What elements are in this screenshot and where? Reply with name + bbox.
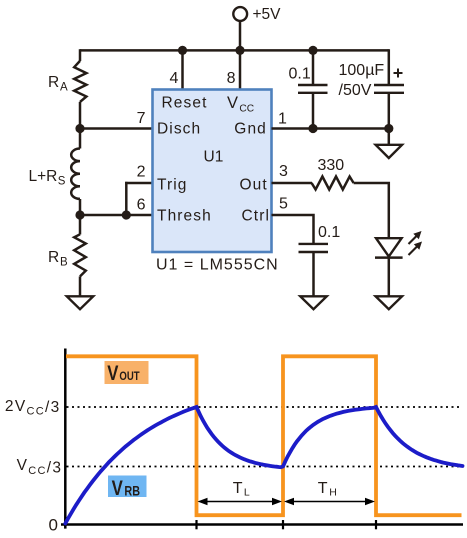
svg-text:+5V: +5V	[253, 6, 282, 23]
svg-text:2: 2	[137, 164, 146, 181]
chart y-axis	[64, 349, 67, 529]
LED D1	[375, 238, 403, 257]
svg-text:T: T	[233, 480, 243, 497]
wire Disch pin7	[80, 127, 153, 130]
ground under C3	[300, 296, 326, 309]
svg-text:RB: RB	[124, 483, 140, 498]
svg-text:8: 8	[227, 70, 236, 87]
svg-text:5: 5	[279, 196, 288, 213]
dotted level 2Vcc/3	[67, 406, 462, 408]
svg-text:U1 = LM555CN: U1 = LM555CN	[156, 257, 279, 274]
svg-text:L+R: L+R	[29, 168, 58, 185]
svg-text:0: 0	[49, 516, 58, 535]
wire C1 top lead	[312, 50, 315, 85]
wire Gnd pin1 rail	[272, 127, 389, 130]
wire +5V to top rail	[239, 21, 242, 51]
wire Trig pin2	[125, 182, 153, 185]
svg-text:R: R	[48, 249, 59, 266]
wire pin8 stub	[239, 50, 242, 91]
axis tick t3	[375, 520, 377, 529]
svg-text:V: V	[112, 477, 123, 500]
svg-text:0.1: 0.1	[289, 66, 311, 83]
junction C1/top rail	[308, 46, 317, 55]
waveform VRB (blue capacitor voltage)	[65, 407, 462, 524]
wire inductor bottom to Thresh node	[79, 199, 82, 235]
resistor RB	[74, 234, 86, 276]
svg-text:VCC/3: VCC/3	[17, 457, 63, 477]
junction RB/Thresh	[75, 210, 84, 219]
wire Thresh pin6	[80, 214, 153, 217]
axis tick t2	[282, 520, 284, 529]
svg-text:CC: CC	[239, 104, 254, 115]
svg-text:U1: U1	[204, 149, 224, 166]
junction pin4/top rail	[178, 46, 187, 55]
chart x-axis	[61, 523, 463, 526]
junction RA/Disch	[75, 124, 84, 133]
junction Trig/Thresh	[122, 210, 131, 219]
svg-text:T: T	[318, 480, 328, 497]
svg-text:6: 6	[137, 197, 146, 214]
svg-text:3: 3	[279, 163, 288, 180]
svg-text:Trig: Trig	[157, 177, 188, 194]
IC U1 555 timer body	[153, 90, 272, 253]
polarity plus C2	[394, 69, 403, 78]
svg-text:0.1: 0.1	[318, 224, 340, 241]
svg-text:V: V	[107, 362, 118, 385]
svg-text:B: B	[60, 257, 68, 269]
junction +5V/top rail	[235, 46, 244, 55]
svg-text:Disch: Disch	[157, 121, 201, 138]
wire C1 bottom lead	[312, 93, 315, 129]
dotted level Vcc/3	[67, 466, 462, 468]
wire C3 bottom lead	[312, 252, 315, 296]
ground under C2	[376, 145, 402, 158]
junction C1/Gnd rail	[308, 124, 317, 133]
label VRB box	[108, 476, 147, 501]
wire R330 to LED	[354, 183, 389, 239]
svg-text:Gnd: Gnd	[234, 121, 267, 138]
dimension arrow TH	[284, 480, 375, 505]
svg-text:L: L	[244, 487, 250, 499]
svg-text:7: 7	[137, 110, 146, 127]
wire Trig jog vertical	[125, 182, 128, 215]
ground under RB	[67, 296, 93, 309]
wire Out pin3 to R330	[272, 182, 313, 185]
svg-text:Out: Out	[240, 177, 268, 194]
svg-text:V: V	[227, 94, 238, 112]
capacitor C1 0.1	[298, 85, 328, 93]
wire RA bottom to Disch node	[79, 102, 82, 149]
svg-text:Ctrl: Ctrl	[242, 207, 271, 224]
svg-text:S: S	[58, 176, 66, 188]
resistor R330	[312, 177, 354, 190]
wire LED cathode lead	[388, 258, 391, 296]
wire RB bottom lead	[79, 276, 82, 297]
ground under LED	[376, 296, 402, 309]
svg-text:330: 330	[318, 157, 345, 174]
svg-text:100µF: 100µF	[339, 62, 385, 79]
wire pin4 stub	[181, 50, 184, 91]
axis tick t1	[195, 520, 197, 529]
svg-text:R: R	[48, 74, 59, 91]
svg-text:2VCC/3: 2VCC/3	[5, 398, 61, 417]
svg-text:A: A	[60, 82, 68, 94]
node +5V supply terminal	[233, 7, 247, 21]
capacitor C2 100uF	[374, 85, 404, 93]
svg-text:OUT: OUT	[119, 370, 140, 383]
svg-text:Thresh: Thresh	[157, 207, 212, 224]
wire C2 bottom lead	[388, 93, 391, 145]
wire top rail corner down to C2	[388, 49, 391, 85]
junction C2/Gnd rail	[384, 124, 393, 133]
waveform Vout (orange square wave)	[66, 356, 462, 515]
svg-text:Reset: Reset	[162, 95, 208, 112]
label Vout box	[105, 361, 149, 386]
svg-text:H: H	[329, 487, 337, 499]
inductor L+RS	[71, 149, 80, 199]
svg-text:4: 4	[170, 70, 179, 87]
wire Ctrl pin5	[272, 215, 314, 244]
wire left rail top (RA top lead)	[79, 49, 82, 61]
wire top rail	[80, 49, 389, 52]
dimension arrow TL	[198, 480, 283, 505]
svg-text:1: 1	[278, 111, 287, 128]
svg-text:/50V: /50V	[339, 82, 372, 99]
capacitor C3 0.1	[299, 244, 329, 252]
resistor RA	[74, 61, 86, 102]
LED light arrows	[409, 231, 423, 255]
